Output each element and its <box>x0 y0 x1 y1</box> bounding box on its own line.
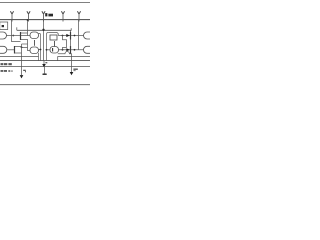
resistor R3 body <box>50 35 57 40</box>
transistor Q3 base bar <box>70 32 72 40</box>
input pad P3 <box>0 46 7 53</box>
wire Q3-Q4 bases link <box>70 40 72 47</box>
transistor Q5 body <box>30 32 39 39</box>
transistor Q1 collector <box>21 32 28 34</box>
transistor Q6 body <box>30 47 39 54</box>
bottom line segment right <box>58 56 91 58</box>
pin box P1 inner mark <box>2 25 4 27</box>
pin box P1 <box>0 22 8 30</box>
GND bar below <box>44 67 46 73</box>
note text left <box>1 63 12 65</box>
GND arrow mid tick <box>45 62 47 63</box>
supply arrow A1 <box>10 11 13 21</box>
transistor Q2 collector <box>15 46 22 48</box>
node dot out2 <box>62 49 64 51</box>
VCC label text <box>45 13 53 16</box>
stub above bus <box>16 27 18 30</box>
node dot bus <box>42 29 44 31</box>
wire VCC drop left <box>12 20 21 42</box>
transistor Q2 base wire <box>7 49 15 51</box>
wire Q5-Q6 link <box>34 40 36 46</box>
wire bus stub Q3 <box>70 30 72 32</box>
node dot Q2c <box>21 46 23 48</box>
transistor Q1 base wire <box>7 35 28 37</box>
wire VCC drop right <box>78 20 80 50</box>
wire Q6 bottom drop <box>38 53 40 61</box>
node dot base1 <box>12 35 14 37</box>
node dot out1b <box>74 35 76 37</box>
transistor Q1 base bar <box>20 32 22 40</box>
wire Q7 in <box>47 49 51 51</box>
wire jog net V4 <box>63 36 67 50</box>
pin 4 head <box>70 72 74 75</box>
pin arrow head left <box>20 75 24 78</box>
node dot out1 <box>62 35 64 37</box>
transistor Q7 inner bar <box>52 48 54 52</box>
supply arrow A5 <box>77 11 80 21</box>
wire Q5 out corner <box>39 34 41 62</box>
transistor Q2 emitter <box>15 52 22 54</box>
pin label tick left <box>23 70 26 71</box>
pin 4 stem <box>71 57 73 73</box>
bias bus line <box>17 29 72 31</box>
wire GND pin 1 vertical <box>21 44 23 75</box>
top rule line <box>0 2 90 4</box>
GND arrow mid head <box>42 64 46 67</box>
wire R3 top <box>48 33 58 36</box>
wire corner feed Q7 <box>47 33 49 62</box>
wire out2 <box>59 49 84 51</box>
wire R3-Q7 link <box>54 41 56 47</box>
wire rail to R1 feed <box>28 20 31 36</box>
note text line 2 <box>1 70 13 72</box>
supply arrow A2 <box>27 11 30 21</box>
wire rung <box>22 43 28 45</box>
wire bus end tick <box>70 28 72 30</box>
wire Q6 out <box>39 49 41 51</box>
GND bar <box>42 74 46 75</box>
node dot out2b <box>74 49 76 51</box>
wire hop to pin4 <box>58 52 72 57</box>
node dot Q6 out <box>40 49 42 51</box>
transistor Q4 emitter arrow <box>66 48 70 51</box>
GND arrow mid stem <box>43 61 45 64</box>
supply arrow A3 <box>42 11 45 21</box>
VCC rail <box>0 19 90 21</box>
bottom rail 2 <box>0 60 90 62</box>
output pad P5 <box>84 46 95 53</box>
wire node to R2 feed <box>22 47 28 49</box>
transistor Q2 base bar <box>14 46 16 54</box>
node dot rail-collector <box>27 19 29 21</box>
bottom border <box>0 84 90 86</box>
input pad P2 <box>0 32 7 39</box>
transistor Q7 body <box>50 47 59 54</box>
supply arrow A4 <box>61 11 64 21</box>
wire out1 <box>58 35 83 37</box>
wire segment drop <box>57 57 59 61</box>
transistor Q1 emitter <box>21 40 30 51</box>
output pad P4 <box>84 32 95 39</box>
vertical net V2 <box>43 20 45 61</box>
transistor Q3 emitter arrow <box>66 34 70 37</box>
node dot Q7 in <box>46 49 48 51</box>
bottom line segment left <box>0 56 39 58</box>
bottom rail 3 <box>0 66 90 68</box>
pin 4 label <box>73 69 77 72</box>
transistor Q4 base bar <box>70 46 72 54</box>
